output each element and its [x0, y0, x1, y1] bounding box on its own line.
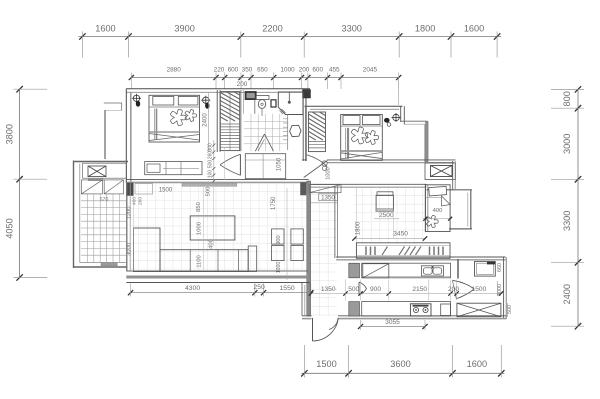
svg-text:220: 220 — [214, 67, 225, 74]
wall: bedroom2 right — [400, 106, 402, 122]
svg-text:500: 500 — [348, 286, 359, 293]
AC platform enclosure west — [83, 163, 127, 178]
svg-text:2400: 2400 — [202, 113, 208, 127]
top dimension chain — [78, 36, 501, 38]
svg-text:900: 900 — [370, 286, 381, 293]
svg-text:260: 260 — [138, 197, 144, 205]
balcony storage boxes with diagonals — [81, 180, 102, 194]
sofa armrest right — [248, 246, 257, 272]
counter diagonal box — [363, 264, 389, 278]
svg-text:1500: 1500 — [316, 359, 336, 369]
svg-text:3300: 3300 — [562, 211, 572, 231]
wall: balcony-living window — [126, 183, 128, 271]
wall: dining bottom / kitchen top — [336, 256, 505, 258]
bedroom1 dresser — [145, 162, 202, 175]
wall: bed3 right — [452, 161, 454, 190]
bed2 blanket flower — [351, 127, 367, 144]
gray shelf bar below wall — [182, 184, 237, 187]
svg-text:3055: 3055 — [385, 319, 400, 326]
sofa chaise — [134, 228, 161, 272]
bed 2 — [341, 115, 383, 161]
svg-text:3000: 3000 — [126, 243, 132, 256]
bed1 side runner — [156, 109, 158, 140]
svg-text:1000: 1000 — [280, 67, 295, 74]
wardrobe diagonal hatch — [220, 92, 239, 121]
column block living NW — [127, 183, 134, 196]
dining table — [376, 195, 393, 211]
svg-text:850: 850 — [196, 202, 202, 212]
dining chairs group (living east) — [272, 229, 284, 244]
wall: bed3 bay top — [427, 189, 473, 191]
svg-text:1000: 1000 — [326, 167, 332, 179]
wall: bathroom right / shaft — [302, 90, 304, 161]
wall: bedroom2 left — [305, 106, 307, 161]
wardrobe bedroom2 hatched — [309, 112, 326, 152]
svg-text:1600: 1600 — [464, 24, 484, 34]
right dimension chain — [577, 89, 579, 326]
left dimension chain — [19, 89, 21, 277]
svg-text:200: 200 — [237, 81, 248, 88]
svg-text:400: 400 — [433, 208, 443, 214]
svg-text:3600: 3600 — [390, 359, 410, 369]
wall: bedroom2 top exterior — [305, 105, 403, 107]
svg-text:1350: 1350 — [321, 286, 336, 293]
svg-text:260: 260 — [208, 151, 214, 160]
svg-text:900: 900 — [276, 235, 282, 244]
bed1 foot fold lines — [149, 134, 199, 141]
wall: bedroom1 left exterior — [125, 89, 127, 183]
living room dimension chain — [131, 292, 311, 294]
small end cabinet — [441, 304, 451, 316]
AC unit x-box east — [431, 166, 453, 177]
svg-text:1600: 1600 — [467, 359, 487, 369]
svg-text:350: 350 — [242, 67, 253, 74]
bed2 foot fold — [341, 152, 383, 159]
fridge — [475, 261, 496, 276]
bathroom floor tile grid — [244, 114, 287, 151]
sink double basin — [422, 266, 444, 276]
wall: west balcony outline — [73, 161, 75, 269]
west balcony floor tile grid — [81, 194, 126, 262]
svg-text:100: 100 — [208, 170, 214, 179]
svg-text:1100: 1100 — [197, 255, 203, 267]
svg-text:800: 800 — [562, 91, 572, 106]
balcony gray sill bar — [101, 263, 117, 266]
svg-text:3900: 3900 — [174, 24, 194, 34]
bed3 flower — [426, 215, 438, 227]
bed2 pillow right — [363, 116, 381, 125]
svg-text:600: 600 — [312, 67, 323, 74]
svg-text:1350: 1350 — [321, 194, 335, 201]
wall: living room bottom band — [126, 270, 308, 272]
bed3 blanket fold — [442, 196, 451, 206]
kitchen left door triangle — [358, 282, 360, 295]
bedroom1 small dim column — [213, 140, 215, 182]
AC unit x-box west — [88, 166, 106, 177]
bed1 blanket flower — [170, 109, 186, 125]
svg-text:2880: 2880 — [167, 67, 182, 74]
hallway floor tile grid — [311, 186, 337, 316]
wall: bed3 bay right window — [470, 190, 472, 229]
dining chair top — [377, 192, 393, 196]
svg-text:650: 650 — [257, 67, 268, 74]
kitchen right door curved triangle — [453, 280, 475, 289]
wall: dining left / hall right — [334, 186, 336, 258]
bed1 blanket line — [149, 131, 200, 133]
wardrobe tall cabinet hatched — [220, 92, 239, 151]
bed2 side runner — [347, 128, 349, 159]
svg-text:3000: 3000 — [562, 134, 572, 154]
bed2 blanket line — [341, 150, 383, 152]
svg-text:600: 600 — [228, 67, 239, 74]
corridor folding door left (curved triangle) — [220, 154, 240, 165]
coffee table — [190, 216, 235, 240]
living room floor tile grid — [130, 183, 306, 271]
svg-text:2400: 2400 — [562, 284, 572, 304]
living internal dim lines — [202, 186, 204, 271]
bottom dimension chain — [301, 372, 504, 374]
svg-text:1800: 1800 — [415, 24, 435, 34]
svg-text:1750: 1750 — [271, 196, 277, 210]
svg-text:2045: 2045 — [363, 67, 378, 74]
towel radiator — [287, 114, 289, 150]
svg-text:460: 460 — [132, 197, 138, 205]
svg-text:300: 300 — [208, 143, 214, 152]
dining room floor tile grid — [354, 187, 425, 244]
wall lamp right of bed1 — [201, 96, 210, 109]
column block living NE — [301, 183, 307, 196]
wall: kitchen right exterior — [503, 257, 505, 319]
bed 1 double bed — [149, 95, 200, 142]
small label box living top-left — [135, 184, 153, 195]
wall: east gray wall vertical — [425, 121, 428, 163]
svg-text:500: 500 — [208, 160, 214, 169]
svg-text:2200: 2200 — [262, 24, 282, 34]
svg-text:200: 200 — [299, 67, 310, 74]
shower corner chamfered — [278, 92, 303, 115]
entry door leaf and arc — [312, 318, 314, 341]
bathroom vanity dark — [246, 92, 256, 99]
bathroom door swing triangle — [255, 134, 264, 151]
svg-text:500: 500 — [205, 187, 211, 197]
bed2 pillow left — [343, 116, 360, 125]
svg-text:660: 660 — [497, 263, 503, 272]
bed 3 — [425, 185, 450, 232]
wall: bedroom1 bottom — [126, 179, 308, 181]
svg-text:2150: 2150 — [412, 286, 427, 293]
wall: bedroom2 step top — [401, 120, 428, 122]
svg-text:250: 250 — [253, 284, 265, 291]
stove — [410, 304, 431, 316]
kitchen bottom counter — [362, 302, 451, 316]
svg-text:3800: 3800 — [5, 124, 15, 144]
kitchen left doorway wall stubs — [349, 263, 360, 278]
dim 3055 — [361, 326, 426, 328]
svg-text:3450: 3450 — [393, 231, 408, 238]
wall junction block bathroom/bedroom2 — [303, 90, 311, 99]
svg-text:1500: 1500 — [159, 188, 173, 194]
hall 1350 label box — [319, 194, 338, 201]
wall: hall left (gray fill) — [307, 181, 311, 316]
wall lamp left of bed1 — [132, 94, 141, 107]
kitchen top counter — [362, 263, 451, 278]
svg-text:455: 455 — [329, 67, 340, 74]
svg-text:1800: 1800 — [356, 221, 362, 235]
svg-text:1200: 1200 — [126, 207, 132, 220]
wardrobe lower rungs — [220, 124, 239, 147]
svg-text:200: 200 — [448, 286, 459, 293]
svg-text:4300: 4300 — [185, 285, 200, 292]
wall: bathroom west partition — [240, 90, 242, 151]
bed1 pillows — [153, 97, 174, 106]
wall: bed3 bay bottom — [449, 228, 472, 230]
kitchen divider wall — [457, 259, 459, 279]
flue stub outside bedroom1 — [104, 110, 106, 159]
wall: bed3 left partition — [425, 185, 427, 232]
sideboard cabinet — [356, 243, 450, 258]
second dimension chain — [131, 77, 398, 79]
wall: bedroom1 right / wardrobe partition — [216, 90, 218, 152]
wall: kitchen bottom exterior — [338, 315, 506, 317]
dining dim line 3450 — [355, 238, 426, 240]
svg-text:1600: 1600 — [95, 24, 115, 34]
right balcony hatch box — [457, 303, 501, 317]
svg-text:670: 670 — [100, 197, 109, 203]
hall top x-rect — [309, 185, 341, 193]
bedroom1 internal dim 2400 — [208, 93, 210, 152]
svg-text:1050: 1050 — [276, 157, 282, 171]
svg-text:1500: 1500 — [472, 286, 487, 293]
wall: bedroom2 bottom / corridor top — [327, 159, 456, 161]
svg-text:2500: 2500 — [379, 212, 394, 219]
wall: x-box room enclosure — [425, 163, 456, 180]
wall lamp bedroom2 — [392, 113, 401, 122]
wall: dining top — [309, 183, 427, 185]
kitchen dim row — [311, 293, 504, 295]
sofa main — [160, 250, 248, 272]
wardrobe2 diagonal hatch — [309, 112, 326, 140]
corridor central panel rect — [245, 154, 285, 179]
svg-text:1550: 1550 — [280, 285, 295, 292]
bedroom2 swing door — [307, 155, 327, 167]
svg-text:3300: 3300 — [341, 24, 361, 34]
hexagon wash basin — [290, 125, 301, 136]
svg-text:1000: 1000 — [276, 262, 282, 274]
toilet — [256, 96, 269, 100]
wall: bedroom1 top exterior (double line) — [126, 88, 310, 90]
svg-text:1000: 1000 — [197, 222, 203, 235]
small basin box — [271, 100, 276, 107]
svg-text:4050: 4050 — [5, 218, 15, 238]
